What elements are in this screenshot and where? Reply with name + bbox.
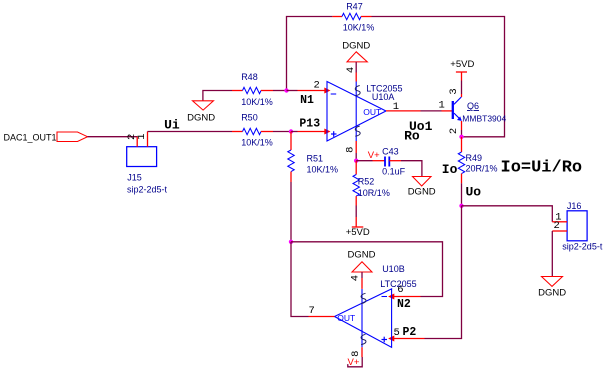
wire Uo down to U10B pin5 bbox=[425, 206, 462, 339]
wire C43 to DGND bbox=[401, 161, 422, 177]
junction P1 bbox=[289, 129, 293, 133]
J15 pin 1 bbox=[147, 132, 149, 147]
svg-text:1: 1 bbox=[136, 133, 148, 139]
svg-text:P2: P2 bbox=[403, 326, 417, 339]
svg-text:R50: R50 bbox=[241, 113, 258, 123]
svg-text:C43: C43 bbox=[382, 147, 399, 157]
svg-text:4: 4 bbox=[345, 67, 357, 73]
pin 6 arrowhead bbox=[388, 294, 394, 300]
wire R47 right to emitter node bbox=[372, 17, 505, 137]
wire emitter to junction bbox=[461, 130, 463, 137]
svg-text:Q6: Q6 bbox=[467, 101, 479, 111]
J16 pin 2 bbox=[552, 230, 567, 232]
wire N1 junction up to R47 feedback bbox=[287, 17, 333, 91]
svg-text:5: 5 bbox=[394, 327, 400, 339]
power +5VD bar above Q6 bbox=[456, 71, 467, 73]
U10B plus sign bbox=[382, 337, 388, 343]
svg-text:2: 2 bbox=[448, 128, 460, 134]
Q6 emitter arrowhead bbox=[457, 116, 462, 121]
svg-text:DGND: DGND bbox=[538, 288, 566, 299]
svg-text:DGND: DGND bbox=[342, 41, 370, 52]
svg-text:sip2-2d5-t: sip2-2d5-t bbox=[562, 241, 603, 251]
svg-text:N2: N2 bbox=[397, 298, 411, 311]
svg-text:2: 2 bbox=[314, 80, 320, 92]
svg-text:10K/1%: 10K/1% bbox=[241, 97, 273, 107]
wire out to Q6 base bbox=[421, 110, 442, 112]
ground DGND symbol near R48 bbox=[193, 101, 214, 110]
wire P1 junction to U10A pin3 bbox=[291, 131, 298, 133]
svg-text:LTC2055: LTC2055 bbox=[366, 84, 402, 94]
pin 8 of U10A bbox=[355, 141, 357, 153]
wire collector to +5VD bbox=[461, 81, 463, 95]
pin 1 of U10A output bbox=[386, 110, 421, 112]
svg-text:R52: R52 bbox=[358, 177, 375, 187]
op-amp U10B power rail line bbox=[361, 289, 363, 347]
svg-text:OUT: OUT bbox=[337, 313, 355, 323]
svg-text:1: 1 bbox=[393, 101, 399, 113]
pin 3 of U10A bbox=[298, 131, 328, 133]
connector J16 body bbox=[567, 211, 587, 241]
svg-text:OUT: OUT bbox=[363, 107, 381, 117]
Q6 emitter pin bbox=[461, 121, 463, 130]
svg-text:8: 8 bbox=[350, 351, 362, 357]
svg-text:V+: V+ bbox=[348, 357, 360, 368]
pin 2 arrowhead bbox=[324, 88, 330, 94]
resistor R49 vertical bbox=[458, 137, 464, 184]
wire DGND stub left of R48 bbox=[203, 91, 232, 101]
wire R51 to N2 junction bbox=[290, 182, 292, 242]
ground DGND symbol right of C43 bbox=[413, 177, 432, 187]
op-amp U10A body bbox=[327, 82, 386, 142]
pin 4 of U10A bbox=[355, 73, 357, 82]
power +5VD bar below R52 bbox=[352, 226, 364, 228]
wire DGND to U10B pin4 bbox=[361, 272, 363, 278]
transistor Q6 base pin bbox=[442, 110, 453, 112]
svg-text:Io: Io bbox=[442, 162, 458, 177]
svg-text:4: 4 bbox=[350, 275, 362, 281]
wire R50 to P1 junction bbox=[273, 131, 291, 133]
resistor R52 vertical bbox=[353, 161, 359, 206]
wire J16 pin2 to DGND bbox=[551, 231, 553, 277]
U10A minus sign bbox=[331, 93, 337, 95]
junction V+ bbox=[354, 159, 358, 163]
J15 pin 2 bbox=[136, 137, 138, 147]
U10A plus sign bbox=[331, 131, 337, 137]
svg-text:V+: V+ bbox=[368, 150, 380, 161]
U10B squiggle top bbox=[361, 293, 366, 303]
svg-text:MMBT3904: MMBT3904 bbox=[462, 113, 506, 123]
svg-text:+5VD: +5VD bbox=[450, 59, 474, 70]
svg-text:J15: J15 bbox=[127, 173, 142, 183]
resistor R51 vertical bbox=[288, 132, 294, 183]
svg-text:R51: R51 bbox=[307, 153, 324, 163]
pin 6 of U10B bbox=[392, 296, 421, 298]
svg-text:DAC1_OUT1: DAC1_OUT1 bbox=[4, 133, 57, 143]
ground DGND symbol below J16 bbox=[542, 277, 563, 287]
svg-text:10K/1%: 10K/1% bbox=[241, 138, 273, 148]
svg-text:3: 3 bbox=[448, 88, 460, 94]
U10B squiggle bottom bbox=[361, 334, 366, 344]
svg-text:Io=Ui/Ro: Io=Ui/Ro bbox=[501, 159, 583, 178]
svg-text:10K/1%: 10K/1% bbox=[307, 165, 339, 175]
power V+ symbol below U10B bbox=[348, 357, 362, 367]
pin 2 of U10A bbox=[298, 90, 328, 92]
op-amp U10A power rail line bbox=[355, 82, 357, 142]
svg-text:N1: N1 bbox=[300, 94, 314, 107]
wire R52 to +5VD bbox=[355, 206, 357, 218]
wire N2 junction to U10B pin6 bbox=[291, 242, 443, 297]
resistor R47 bbox=[332, 13, 371, 19]
ground DGND symbol above U10B bbox=[352, 262, 372, 272]
junction Uo bbox=[459, 204, 463, 208]
svg-text:U10A: U10A bbox=[372, 92, 395, 102]
pin 7 of U10B output bbox=[309, 316, 335, 318]
wire Ui: J15 pin1 to R50 bbox=[148, 131, 233, 133]
svg-text:Ro: Ro bbox=[404, 129, 420, 144]
svg-text:7: 7 bbox=[309, 305, 315, 317]
pin 3 arrowhead bbox=[324, 129, 330, 135]
wire V+ junction to C43 bbox=[356, 160, 372, 162]
svg-text:10R/1%: 10R/1% bbox=[358, 188, 390, 198]
U10A squiggle top bbox=[355, 86, 360, 96]
svg-text:1: 1 bbox=[439, 100, 445, 112]
svg-text:20R/1%: 20R/1% bbox=[466, 164, 498, 174]
svg-text:10K/1%: 10K/1% bbox=[343, 23, 375, 33]
svg-text:3: 3 bbox=[313, 118, 320, 131]
svg-text:sip2-2d5-t: sip2-2d5-t bbox=[127, 185, 168, 195]
U10A squiggle bottom bbox=[355, 126, 360, 136]
svg-text:Ui: Ui bbox=[164, 118, 180, 133]
svg-text:8: 8 bbox=[345, 147, 357, 153]
wire U10B out to N2 junction bbox=[291, 242, 309, 317]
svg-text:U10B: U10B bbox=[382, 264, 405, 274]
svg-text:Uo: Uo bbox=[466, 185, 482, 200]
U10B minus sign bbox=[382, 296, 388, 298]
port DAC1_OUT1 connector symbol bbox=[57, 132, 88, 142]
svg-text:P1: P1 bbox=[299, 118, 313, 131]
svg-text:DGND: DGND bbox=[348, 250, 376, 261]
J16 pin 1 bbox=[552, 221, 567, 223]
pin 4 of U10B bbox=[361, 278, 363, 289]
ground DGND symbol above U10A bbox=[347, 52, 367, 62]
svg-text:+5VD: +5VD bbox=[346, 227, 370, 238]
svg-text:J16: J16 bbox=[567, 201, 582, 211]
wire Uo to J16 pin1 bbox=[462, 206, 553, 222]
svg-text:R48: R48 bbox=[241, 72, 258, 82]
junction N1 bbox=[284, 88, 288, 92]
junction N2 node bbox=[289, 240, 293, 244]
power +5VD below R52 lead bbox=[355, 217, 357, 227]
svg-text:2: 2 bbox=[554, 220, 560, 232]
svg-text:LTC2055: LTC2055 bbox=[380, 279, 416, 289]
wire N1 junction to U10A pin2 bbox=[287, 90, 298, 92]
svg-text:R47: R47 bbox=[346, 2, 363, 12]
pin 5 of U10B bbox=[392, 338, 425, 340]
svg-text:DGND: DGND bbox=[187, 113, 215, 124]
power +5VD above Q6 lead bbox=[461, 72, 463, 81]
wire DAC1_OUT1 to J15 pin2 bbox=[88, 136, 138, 138]
svg-text:0.1uF: 0.1uF bbox=[382, 167, 406, 177]
Q6 collector pin bbox=[461, 94, 463, 97]
svg-text:R49: R49 bbox=[466, 153, 483, 163]
wire pin8 to V+ junction bbox=[355, 153, 357, 161]
transistor Q6 body bbox=[453, 97, 462, 120]
capacitor C43 bbox=[373, 157, 402, 167]
pin 5 arrowhead bbox=[388, 336, 394, 342]
resistor R50 bbox=[232, 128, 273, 134]
wire DGND to pin4 bbox=[355, 62, 357, 73]
svg-text:DGND: DGND bbox=[408, 187, 436, 198]
connector J15 body bbox=[127, 147, 157, 167]
wire R48 to N1 junction bbox=[273, 90, 287, 92]
pin 8 of U10B bbox=[361, 347, 363, 357]
op-amp U10B body bbox=[335, 289, 392, 347]
resistor R48 bbox=[232, 87, 273, 93]
wire R49 to Uo junction bbox=[461, 183, 463, 206]
junction emitter node bbox=[459, 135, 463, 139]
